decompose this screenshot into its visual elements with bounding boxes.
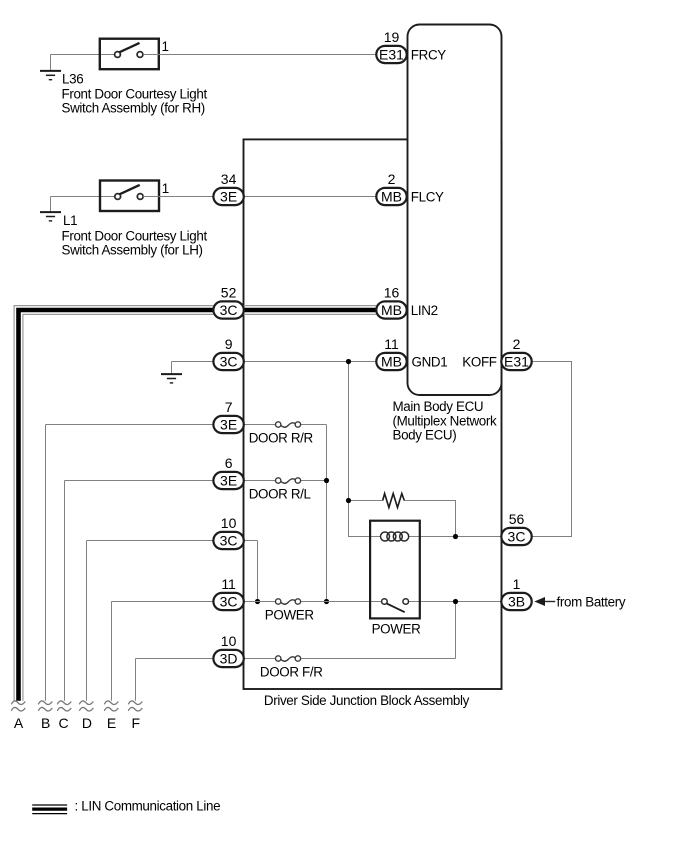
connector MB pin 11 (GND1)	[376, 336, 406, 370]
svg-text:from Battery: from Battery	[557, 594, 626, 609]
svg-text:FRCY: FRCY	[411, 47, 446, 62]
connector 3B pin 1 (battery in)	[501, 576, 531, 610]
wire: vertical from DOOR R/R row to POWER row	[326, 425, 328, 602]
svg-text:1: 1	[513, 576, 521, 592]
svg-text:3C: 3C	[220, 594, 238, 610]
resistor R (relay coil shunt)	[383, 494, 405, 508]
svg-text:3C: 3C	[220, 533, 238, 549]
svg-text:10: 10	[221, 515, 237, 531]
svg-text:3C: 3C	[220, 302, 238, 318]
wire: F riser to junction block	[136, 659, 214, 701]
svg-text:11: 11	[384, 336, 399, 352]
connector 3D pin 10 (DOOR F/R)	[213, 633, 243, 667]
LIN communication line: A riser and horizontal to 3C pin 52	[14, 306, 213, 701]
svg-text:3C: 3C	[508, 529, 526, 545]
wire FLCY inside: 3E to MB	[244, 196, 377, 198]
svg-text:B: B	[41, 715, 50, 731]
wire: E riser to junction block	[112, 602, 214, 701]
svg-text:DOOR F/R: DOOR F/R	[260, 664, 323, 679]
svg-text:52: 52	[221, 285, 237, 301]
svg-text:LIN2: LIN2	[411, 303, 438, 318]
connector 3E pin 6 (DOOR R/L)	[213, 455, 243, 489]
switch contact POWER	[276, 599, 301, 604]
connector MB pin 2 (FLCY)	[376, 171, 406, 205]
connector E31 pin 2 (KOFF)	[501, 336, 531, 370]
wire FRCY: switch to E31	[143, 54, 376, 56]
arrow: from Battery	[534, 597, 545, 606]
svg-text:DOOR R/L: DOOR R/L	[249, 487, 311, 502]
relay POWER box	[370, 521, 420, 619]
wire: B riser to junction block	[46, 425, 214, 701]
switch SW-RH front door courtesy light switch	[100, 39, 159, 69]
relay contact switch	[382, 599, 409, 613]
LIN communication line inside junction block: 3C to MB (LIN2)	[244, 306, 377, 315]
svg-text:7: 7	[225, 399, 233, 415]
break symbol A	[11, 701, 25, 711]
svg-text:3E: 3E	[220, 189, 237, 205]
break symbol F	[128, 701, 142, 711]
svg-text:POWER: POWER	[372, 621, 422, 636]
wire DOOR F/R row	[244, 602, 456, 659]
break symbol D	[79, 701, 93, 711]
svg-text:KOFF: KOFF	[462, 354, 496, 369]
svg-text:56: 56	[509, 511, 525, 527]
switch contact DOOR R/L	[276, 478, 301, 483]
svg-text:9: 9	[225, 336, 233, 352]
svg-text:: LIN Communication Line: : LIN Communication Line	[75, 799, 221, 814]
break symbol C	[57, 701, 71, 711]
svg-text:Switch Assembly (for RH): Switch Assembly (for RH)	[62, 101, 205, 116]
svg-text:GND1: GND1	[412, 354, 448, 369]
svg-text:3C: 3C	[220, 354, 238, 370]
svg-text:A: A	[14, 715, 24, 731]
break symbol B	[38, 701, 52, 711]
wire POWER row: 3C pin 11 to 3B pin 1	[244, 601, 502, 603]
switch SW-LH front door courtesy light switch	[100, 181, 159, 212]
svg-text:6: 6	[225, 455, 233, 471]
connector 3E pin 34 (FLCY out)	[213, 171, 243, 205]
svg-text:L1: L1	[63, 213, 77, 228]
connector 3C pin 11 (POWER row)	[213, 576, 243, 610]
svg-text:Main Body ECU: Main Body ECU	[393, 399, 484, 414]
svg-text:D: D	[82, 715, 92, 731]
svg-text:1: 1	[162, 39, 169, 54]
svg-text:E31: E31	[379, 47, 404, 63]
wire: D riser to junction block	[87, 541, 214, 701]
svg-text:MB: MB	[381, 302, 402, 318]
wire: GND1 junction down to relay coil	[349, 362, 381, 537]
node: junction POWER row at riser	[324, 599, 329, 604]
svg-text:10: 10	[221, 633, 237, 649]
coil L (relay coil)	[381, 532, 409, 541]
connector 3C pin 9 (ground)	[213, 336, 243, 370]
svg-text:34: 34	[221, 171, 237, 187]
connector E31 pin 19 (FRCY)	[376, 29, 406, 63]
svg-text:Driver Side Junction Block Ass: Driver Side Junction Block Assembly	[264, 693, 470, 708]
wire DOOR R/L row	[244, 480, 327, 482]
svg-text:Switch Assembly (for LH): Switch Assembly (for LH)	[62, 243, 203, 258]
wire GND1: 3C pin 9 to MB pin 11	[244, 361, 377, 363]
wire: ground to RH courtesy switch	[51, 54, 115, 56]
svg-text:MB: MB	[381, 354, 402, 370]
ground G2 (L1)	[50, 197, 52, 212]
ground G1 (L36)	[50, 55, 52, 71]
wire: ground to 3C pin 9	[172, 361, 214, 363]
svg-text:3D: 3D	[220, 651, 238, 667]
node: junction coil/resistor output	[453, 534, 458, 539]
svg-text:2: 2	[388, 171, 396, 187]
svg-text:2: 2	[513, 336, 521, 352]
ground G3	[171, 362, 173, 374]
switch contact DOOR F/R	[276, 656, 301, 661]
break symbol E	[104, 701, 118, 711]
svg-text:Front Door Courtesy Light: Front Door Courtesy Light	[62, 229, 208, 244]
node: junction resistor branch	[346, 498, 351, 503]
wire KOFF: E31 pin 2 to 3C pin 56	[532, 362, 571, 537]
node: junction pin10 drop on POWER row	[255, 599, 260, 604]
svg-text:FLCY: FLCY	[411, 189, 444, 204]
node: junction on GND1 wire	[346, 359, 351, 364]
svg-text:MB: MB	[381, 189, 402, 205]
node: junction DOOR F/R to POWER row	[453, 599, 458, 604]
wire: ground to LH courtesy switch	[51, 196, 115, 198]
connector 3C pin 56 (coil out)	[501, 511, 531, 545]
svg-text:11: 11	[221, 576, 236, 592]
junction block: Driver Side Junction Block Assembly	[244, 139, 502, 689]
wire DOOR R/R row	[244, 424, 327, 426]
ECU box: Main Body ECU	[408, 25, 502, 396]
node: junction DOOR R/L riser	[324, 478, 329, 483]
svg-text:(Multiplex Network: (Multiplex Network	[393, 413, 497, 428]
svg-text:3E: 3E	[220, 473, 237, 489]
wire: C riser to junction block	[65, 481, 214, 701]
wire: 3C pin 10 row down to POWER row	[244, 541, 258, 602]
svg-text:19: 19	[384, 29, 400, 45]
wire: resistor branch	[349, 501, 456, 537]
svg-text:C: C	[58, 715, 68, 731]
svg-text:L36: L36	[62, 72, 83, 87]
svg-text:16: 16	[384, 285, 400, 301]
svg-text:DOOR R/R: DOOR R/R	[249, 430, 314, 445]
wire FLCY outside	[143, 196, 213, 198]
connector 3C pin 52 (LIN)	[213, 285, 243, 319]
legend: LIN communication line sample	[32, 805, 67, 814]
connector 3E pin 7 (DOOR R/R)	[213, 399, 243, 433]
svg-text:3B: 3B	[508, 594, 525, 610]
svg-text:E: E	[107, 715, 116, 731]
svg-text:1: 1	[162, 181, 169, 196]
svg-text:3E: 3E	[220, 417, 237, 433]
switch contact DOOR R/R	[276, 422, 301, 427]
svg-text:Body ECU): Body ECU)	[393, 428, 457, 443]
svg-text:Front Door Courtesy Light: Front Door Courtesy Light	[62, 87, 208, 102]
svg-text:F: F	[132, 715, 141, 731]
svg-text:POWER: POWER	[265, 607, 315, 622]
connector 3C pin 10 (row 10)	[213, 515, 243, 549]
wire: coil output to 3C pin 56	[408, 536, 501, 538]
connector MB pin 16 (LIN2)	[376, 285, 406, 319]
svg-text:E31: E31	[504, 354, 529, 370]
